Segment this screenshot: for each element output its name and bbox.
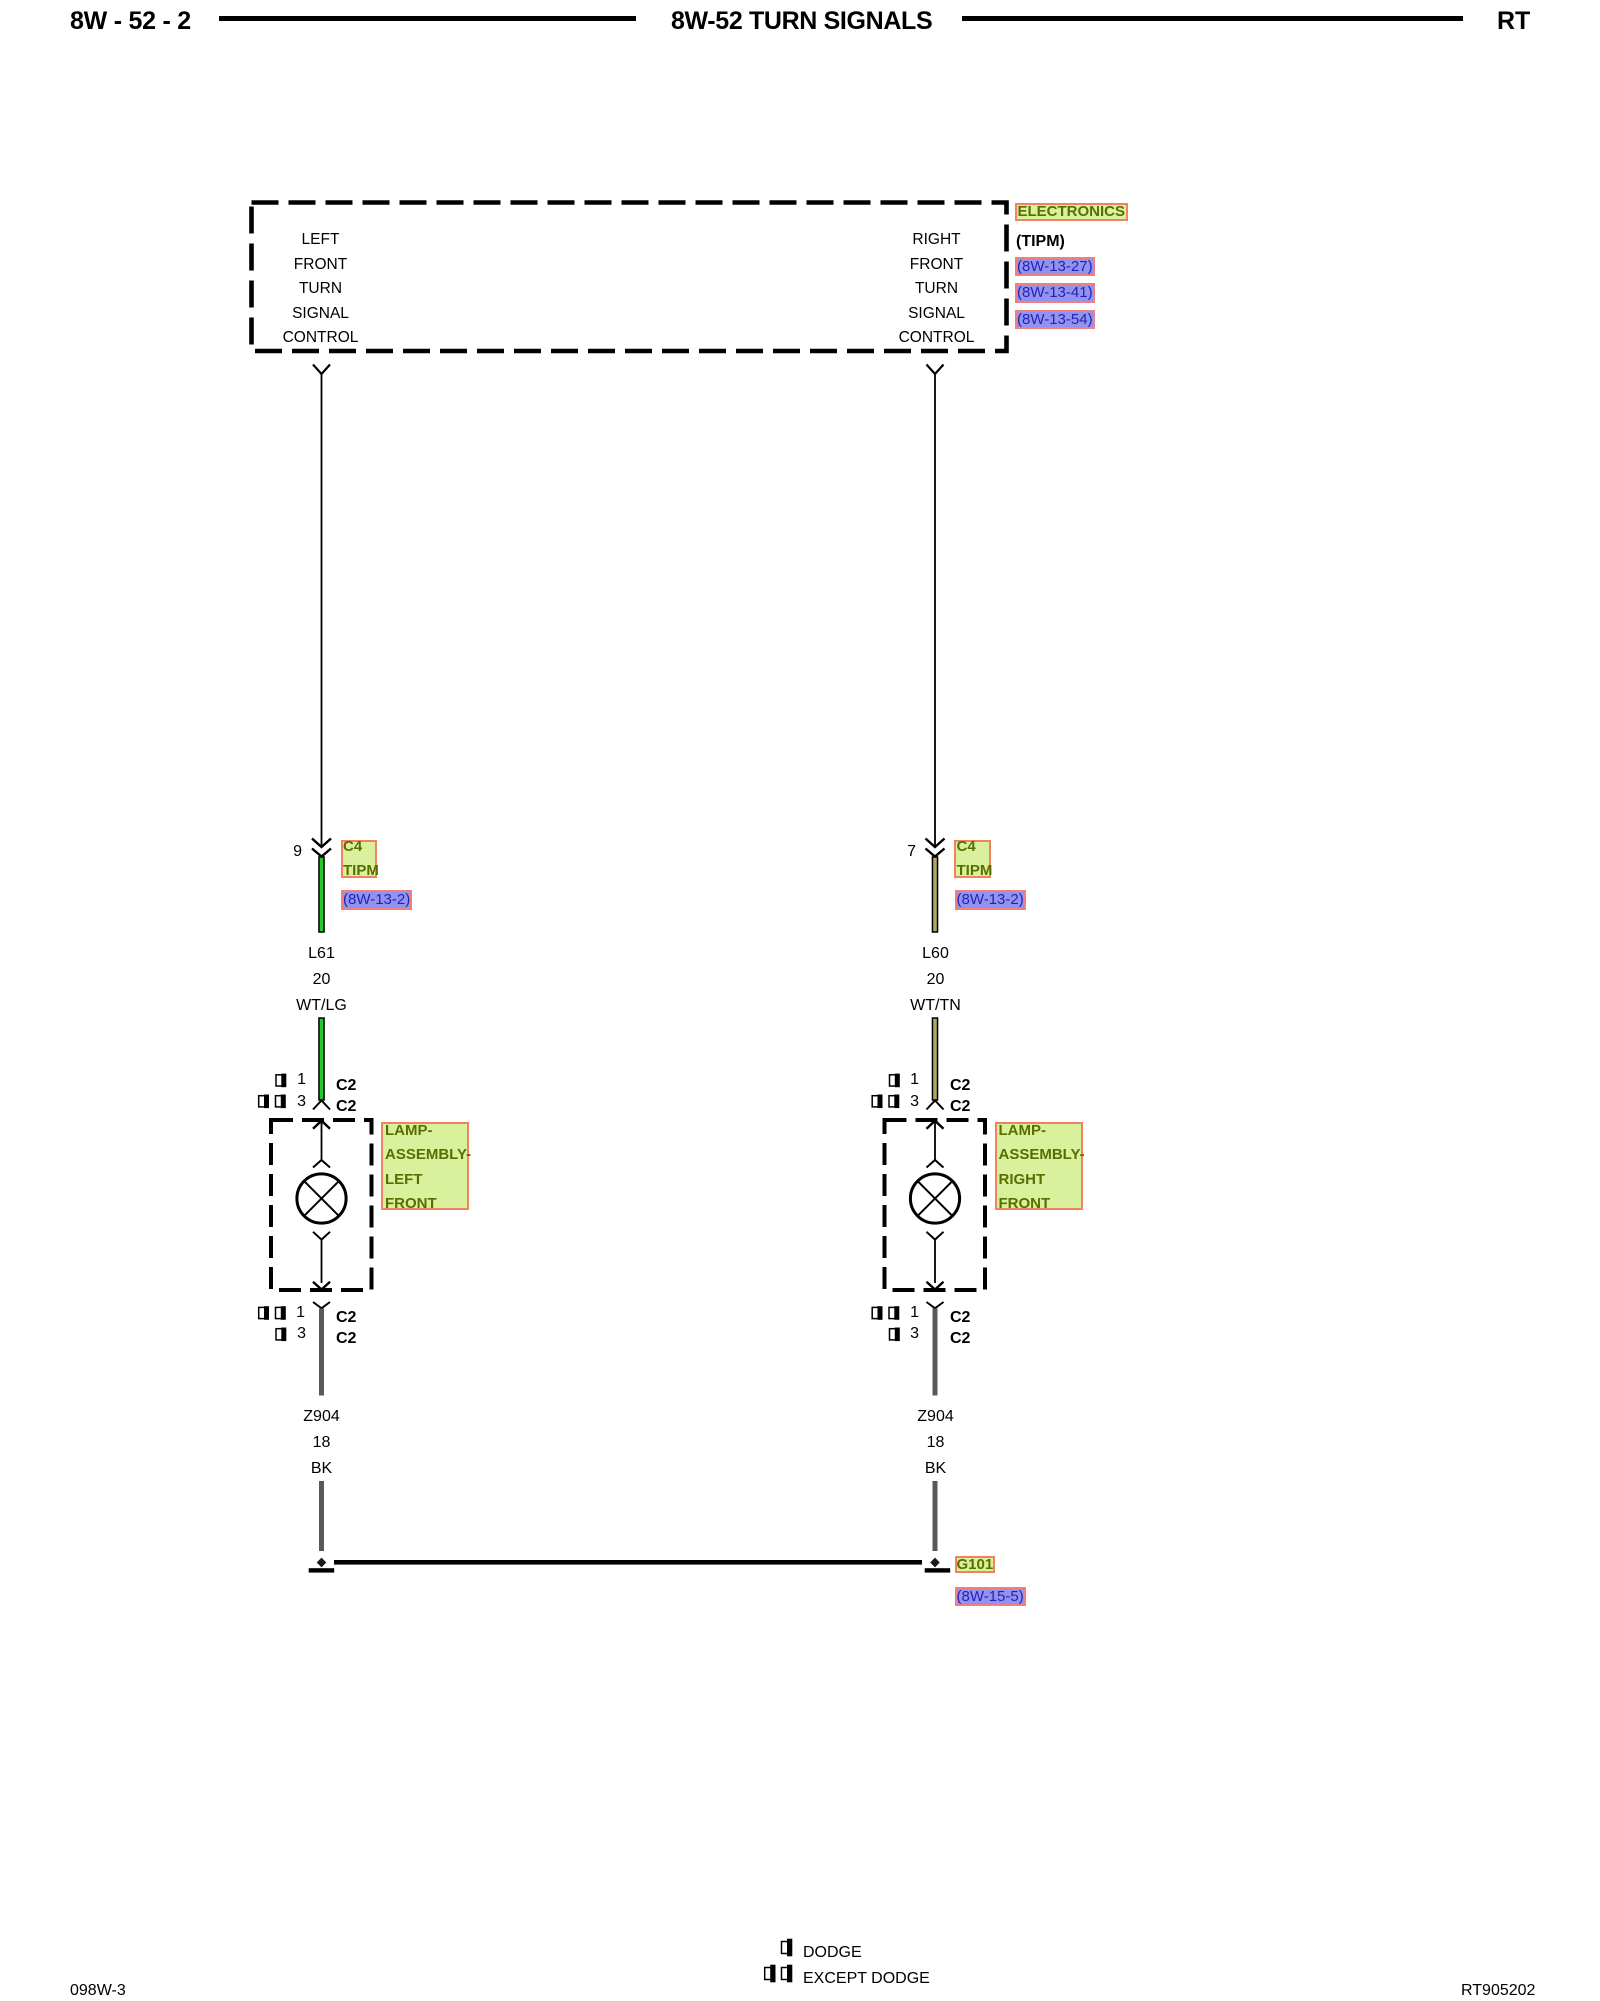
wire Z904 BK left upper segment <box>319 1309 324 1396</box>
connector legs at lamp C2 right <box>927 1101 944 1110</box>
pin number 1 left bottom <box>275 1303 305 1323</box>
label ELECTRONICS <box>1015 203 1129 221</box>
wire Z904 BK left lower segment <box>319 1481 324 1551</box>
wire L61 WT/LG lower segment <box>319 1018 324 1100</box>
wire from TIPM pin 9 (left) <box>321 374 323 847</box>
wire label Z904 18 BK right <box>875 1404 996 1482</box>
header rule right <box>962 16 1463 21</box>
connector C4 double chevron left <box>312 839 331 857</box>
wire L60 WT/TN lower segment <box>932 1018 937 1100</box>
connector Y below bulb right <box>927 1232 944 1290</box>
connector label C2 upper left <box>336 1076 356 1096</box>
pin icons double (pin 3, right top) <box>872 1095 899 1109</box>
bulb right front <box>910 1174 959 1223</box>
ground bar right <box>925 1568 951 1572</box>
label C4 TIPM left <box>341 840 378 878</box>
connector legs below lamp box left <box>313 1302 330 1308</box>
bulb left front <box>297 1174 346 1223</box>
lamp assembly right dashed box <box>885 1120 986 1290</box>
label (8W-13-2) left <box>341 890 412 910</box>
connector legs below lamp box right <box>927 1302 944 1308</box>
ground bar left <box>309 1568 335 1572</box>
pin number 3 right top <box>889 1092 919 1112</box>
connector label C2 upper left bottom <box>336 1308 356 1328</box>
header rule left <box>219 16 636 21</box>
pin icons double (pin 1, right bottom) <box>872 1306 899 1320</box>
connector label C2 upper right bottom <box>950 1308 970 1328</box>
label LAMP-ASSEMBLY-LEFT FRONT <box>381 1122 469 1210</box>
pin number 1 right top <box>889 1070 919 1090</box>
pin number 9 <box>272 842 302 862</box>
wire label L61 20 WT/LG <box>261 941 382 1019</box>
pin icons double (pin 3, left top) <box>259 1095 286 1109</box>
module TIPM dashed box <box>252 203 1007 352</box>
connector Y at TIPM pin 7 (right) <box>927 365 944 375</box>
label LAMP-ASSEMBLY-RIGHT FRONT <box>995 1122 1083 1210</box>
connector C4 double chevron right <box>926 839 945 857</box>
connector label C2 lower left bottom <box>336 1329 356 1349</box>
connector Y at TIPM pin 9 (left) <box>313 365 330 375</box>
pin number 1 left top <box>276 1070 306 1090</box>
wire L61 WT/LG upper segment <box>319 857 324 932</box>
pin number 3 left top <box>276 1092 306 1112</box>
wire from TIPM pin 7 (right) <box>934 374 936 847</box>
pin number 3 right bottom <box>889 1324 919 1344</box>
label LEFT FRONT TURN SIGNAL CONTROL <box>260 228 381 351</box>
label (8W-13-54) <box>1015 310 1095 330</box>
legend pin icon single (DODGE) <box>782 1939 793 1957</box>
wire L60 WT/TN upper segment <box>932 857 937 932</box>
footer code RT905202 <box>1461 1981 1535 2001</box>
header title <box>671 10 932 33</box>
legend DODGE <box>803 1943 862 1963</box>
wire Z904 BK right lower segment <box>933 1481 938 1551</box>
pin number 1 right bottom <box>889 1303 919 1323</box>
wire label Z904 18 BK left <box>261 1404 382 1482</box>
pin icon single (pin 3, right bottom) <box>890 1328 900 1342</box>
legend EXCEPT DODGE <box>803 1969 930 1989</box>
connector chevron above bulb right <box>927 1160 944 1168</box>
label RIGHT FRONT TURN SIGNAL CONTROL <box>876 228 997 351</box>
pin icon single (pin 1, left top) <box>276 1074 286 1088</box>
ground joint diamond right <box>930 1558 940 1568</box>
pin icon single (pin 1, right top) <box>890 1074 900 1088</box>
legend pin icons double (EXCEPT DODGE) <box>765 1965 793 1983</box>
connector legs at lamp C2 left <box>313 1101 330 1110</box>
wire label L60 20 WT/TN <box>875 941 996 1019</box>
ground joint diamond left <box>317 1558 327 1568</box>
label C4 TIPM right <box>954 840 991 878</box>
label (8W-13-2) right <box>955 890 1026 910</box>
pin number 3 left bottom <box>276 1324 306 1344</box>
pin number 7 <box>886 842 916 862</box>
connector label C2 upper right <box>950 1076 970 1096</box>
pin icons double (pin 1, left bottom) <box>259 1306 286 1320</box>
footer sheet number 098W-3 <box>70 1981 126 2001</box>
connector label C2 lower right bottom <box>950 1329 970 1349</box>
wire Z904 BK right upper segment <box>933 1309 938 1396</box>
label (TIPM) <box>1016 232 1065 252</box>
header code RT <box>1497 10 1530 33</box>
connector arrow into lamp left <box>313 1121 330 1160</box>
label (8W-13-27) <box>1015 257 1095 277</box>
label (8W-15-5) <box>955 1587 1026 1607</box>
pin icon single (pin 3, left bottom) <box>276 1328 286 1342</box>
connector chevron above bulb left <box>313 1160 330 1168</box>
connector label C2 lower left <box>336 1097 356 1117</box>
ground bus wire G101 <box>334 1560 922 1565</box>
connector arrow into lamp right <box>927 1121 944 1160</box>
lamp assembly left dashed box <box>271 1120 372 1290</box>
label (8W-13-41) <box>1015 283 1095 303</box>
label G101 <box>955 1556 996 1573</box>
connector Y below bulb left <box>313 1232 330 1290</box>
header page number <box>70 10 191 33</box>
connector label C2 lower right <box>950 1097 970 1117</box>
